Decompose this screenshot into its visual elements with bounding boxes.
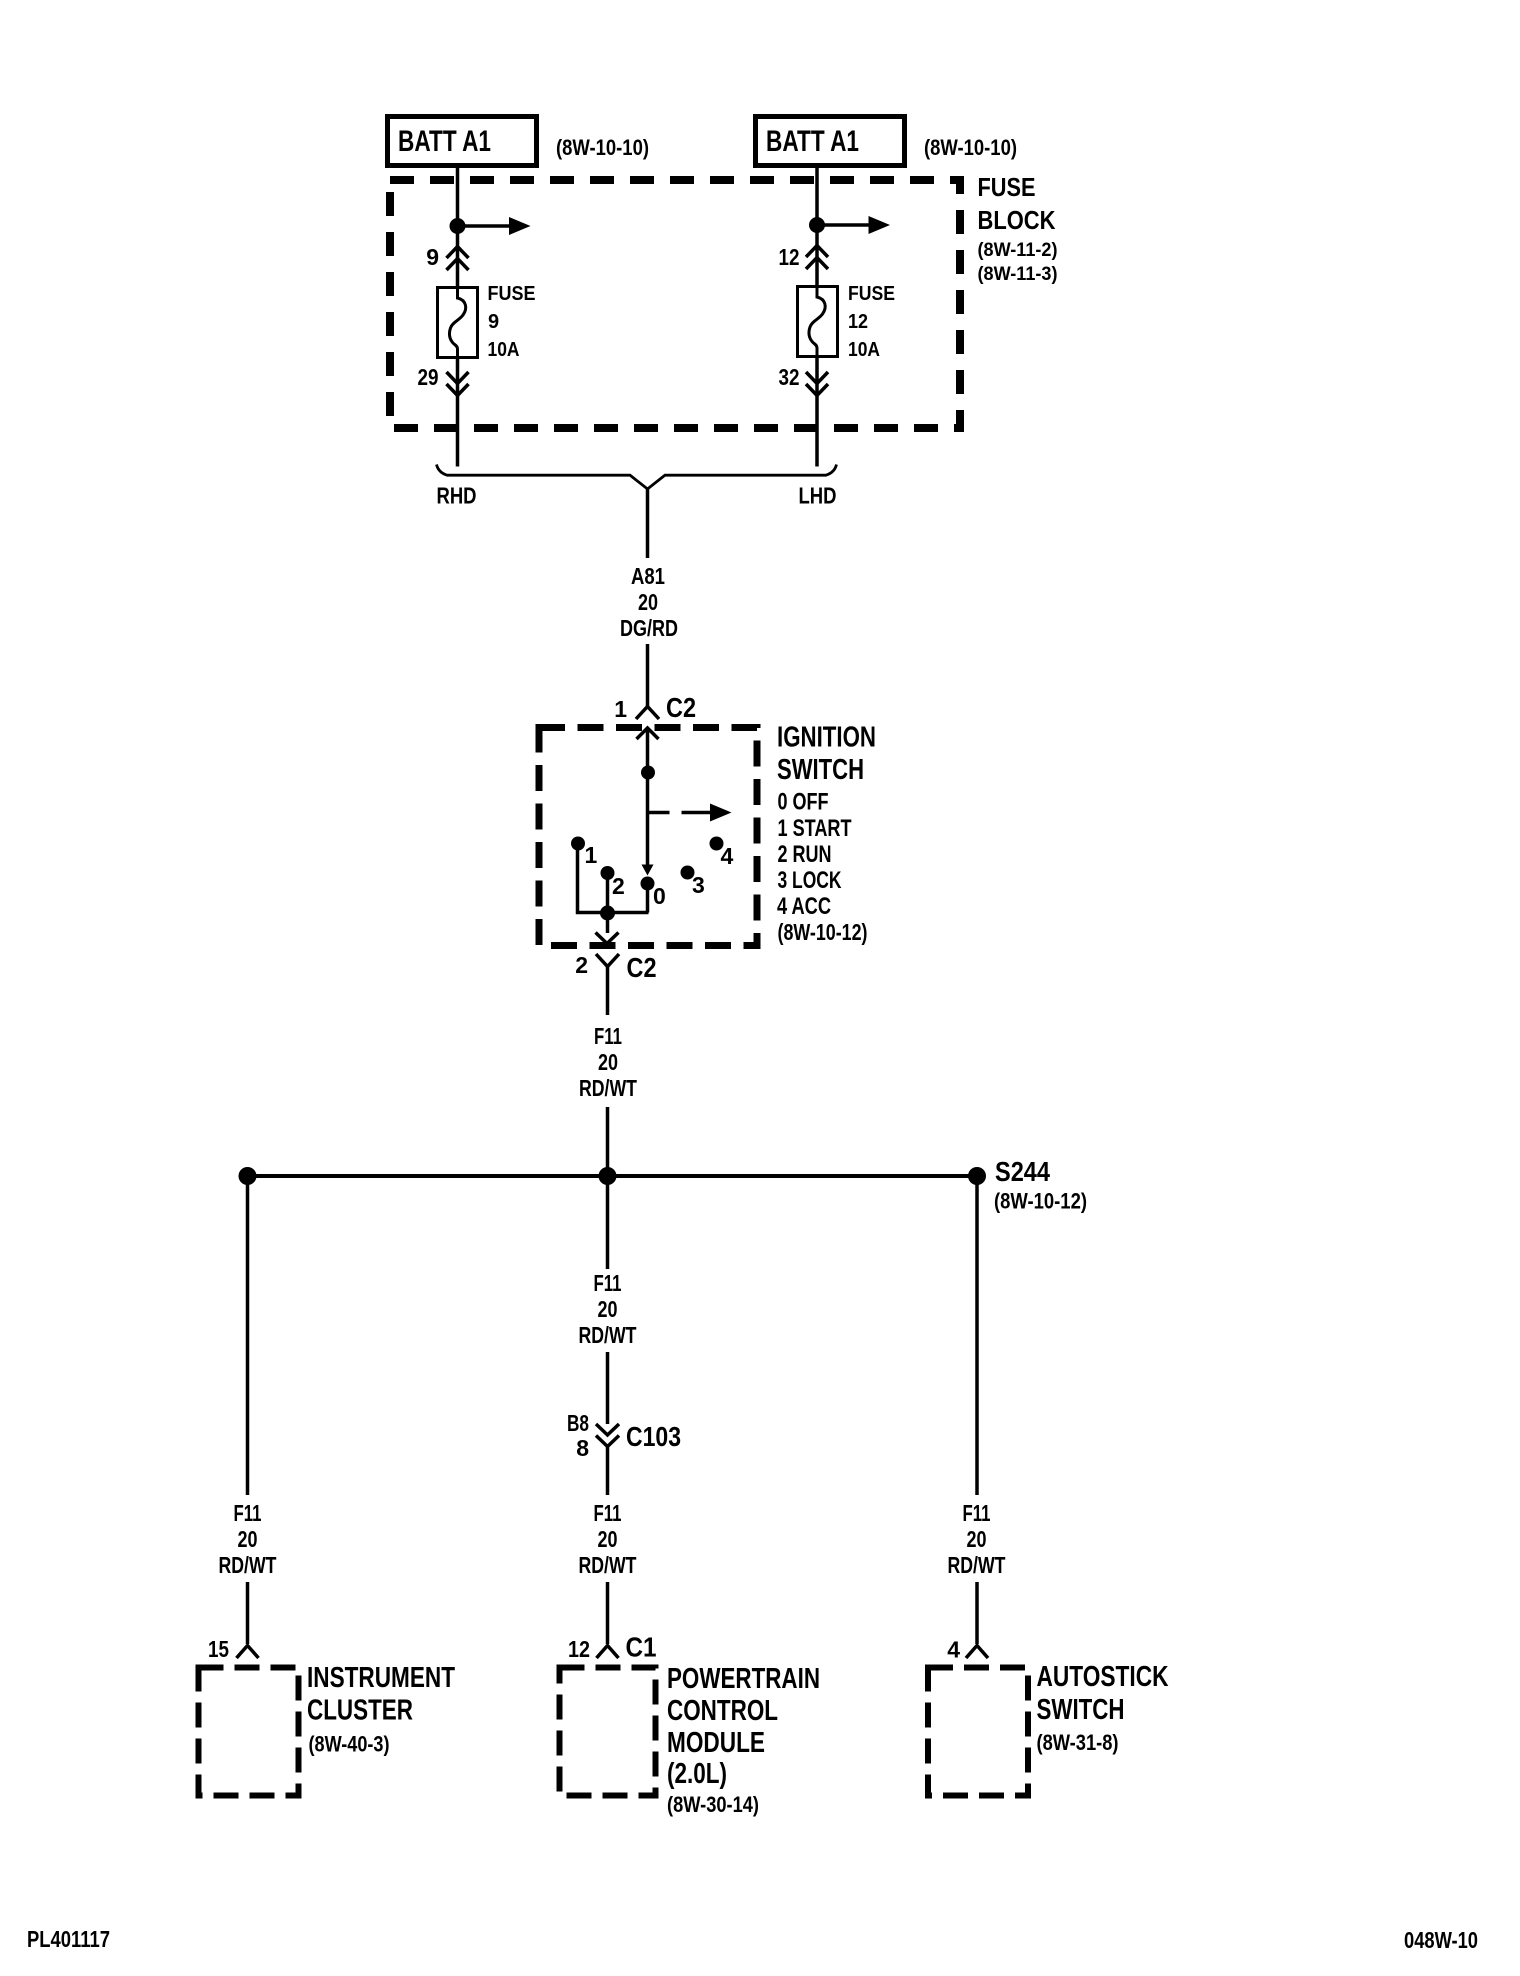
svg-text:MODULE: MODULE [667, 1727, 765, 1759]
svg-text:2: 2 [612, 873, 625, 899]
svg-text:RD/WT: RD/WT [579, 1552, 637, 1578]
svg-text:3: 3 [692, 872, 705, 898]
svg-text:S244: S244 [995, 1156, 1050, 1187]
svg-text:(8W-10-10): (8W-10-10) [556, 135, 649, 160]
svg-text:10A: 10A [488, 339, 520, 361]
svg-text:FUSE: FUSE [848, 283, 895, 305]
svg-text:(8W-11-3): (8W-11-3) [978, 264, 1058, 285]
svg-text:20: 20 [598, 1526, 618, 1552]
svg-text:POWERTRAIN: POWERTRAIN [667, 1663, 820, 1695]
svg-text:3 LOCK: 3 LOCK [778, 867, 842, 894]
svg-text:12: 12 [779, 244, 800, 270]
svg-text:RD/WT: RD/WT [948, 1552, 1006, 1578]
svg-text:4: 4 [721, 843, 734, 869]
svg-text:1 START: 1 START [778, 815, 852, 842]
svg-text:2 RUN: 2 RUN [778, 841, 832, 868]
svg-text:AUTOSTICK: AUTOSTICK [1037, 1661, 1169, 1693]
svg-text:FUSE: FUSE [488, 283, 536, 305]
svg-text:BATT A1: BATT A1 [398, 125, 491, 158]
svg-text:CONTROL: CONTROL [667, 1695, 778, 1727]
svg-text:DG/RD: DG/RD [620, 615, 678, 641]
svg-text:9: 9 [426, 244, 439, 270]
svg-text:048W-10: 048W-10 [1404, 1927, 1478, 1953]
svg-text:29: 29 [418, 364, 439, 390]
svg-text:F11: F11 [594, 1023, 622, 1049]
svg-text:FUSE: FUSE [978, 172, 1036, 202]
svg-text:(8W-11-2): (8W-11-2) [978, 240, 1058, 261]
svg-text:A81: A81 [631, 563, 665, 589]
svg-text:8: 8 [576, 1435, 589, 1461]
svg-text:SWITCH: SWITCH [777, 754, 864, 786]
svg-text:F11: F11 [594, 1270, 622, 1296]
svg-text:(8W-10-12): (8W-10-12) [778, 919, 868, 945]
svg-text:32: 32 [779, 364, 800, 390]
svg-text:1: 1 [585, 842, 598, 868]
svg-text:(8W-31-8): (8W-31-8) [1037, 1730, 1119, 1755]
svg-text:20: 20 [638, 589, 658, 615]
svg-text:(8W-30-14): (8W-30-14) [667, 1792, 759, 1817]
svg-text:C1: C1 [626, 1632, 657, 1663]
svg-text:2: 2 [575, 952, 588, 978]
svg-text:C2: C2 [627, 952, 657, 983]
svg-text:F11: F11 [963, 1500, 991, 1526]
svg-text:B8: B8 [567, 1410, 589, 1436]
svg-text:1: 1 [614, 696, 627, 722]
svg-text:12: 12 [568, 1636, 590, 1662]
svg-text:10A: 10A [848, 339, 880, 361]
svg-text:F11: F11 [594, 1500, 622, 1526]
svg-text:PL401117: PL401117 [27, 1926, 110, 1952]
svg-text:LHD: LHD [799, 483, 837, 509]
svg-text:20: 20 [598, 1296, 618, 1322]
svg-text:0: 0 [653, 883, 666, 909]
svg-text:CLUSTER: CLUSTER [307, 1695, 413, 1727]
svg-text:RD/WT: RD/WT [579, 1075, 637, 1101]
svg-text:C2: C2 [666, 692, 696, 723]
svg-text:RD/WT: RD/WT [579, 1322, 637, 1348]
svg-text:INSTRUMENT: INSTRUMENT [307, 1662, 455, 1694]
svg-text:(8W-10-10): (8W-10-10) [924, 135, 1017, 160]
svg-text:(8W-10-12): (8W-10-12) [994, 1189, 1087, 1214]
svg-text:BATT A1: BATT A1 [766, 125, 859, 158]
svg-text:0 OFF: 0 OFF [778, 789, 829, 816]
svg-text:20: 20 [598, 1049, 618, 1075]
svg-text:C103: C103 [626, 1421, 681, 1452]
svg-text:BLOCK: BLOCK [978, 205, 1056, 235]
svg-text:12: 12 [848, 311, 868, 333]
svg-text:SWITCH: SWITCH [1037, 1694, 1125, 1726]
svg-text:RHD: RHD [437, 483, 477, 509]
svg-text:20: 20 [238, 1526, 258, 1552]
svg-text:4 ACC: 4 ACC [777, 893, 831, 920]
svg-text:4: 4 [947, 1637, 960, 1663]
svg-text:15: 15 [208, 1636, 229, 1662]
svg-text:F11: F11 [234, 1500, 262, 1526]
svg-text:IGNITION: IGNITION [777, 722, 876, 754]
svg-text:20: 20 [967, 1526, 987, 1552]
svg-text:9: 9 [488, 311, 499, 333]
svg-text:RD/WT: RD/WT [219, 1552, 277, 1578]
svg-text:(2.0L): (2.0L) [667, 1758, 727, 1790]
svg-text:(8W-40-3): (8W-40-3) [309, 1732, 390, 1757]
